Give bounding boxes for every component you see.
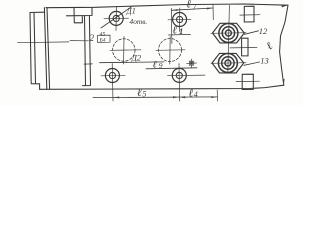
leader Д1	[101, 7, 131, 28]
middle port rectangle	[230, 38, 257, 56]
bottom extension x=217	[216, 90, 218, 101]
leader 13	[244, 62, 260, 65]
right edge bottom arrow	[283, 79, 285, 85]
hole T1 (Д1)	[104, 7, 129, 31]
l7 right corner arrow	[282, 5, 288, 7]
svg-text:2: 2	[90, 33, 95, 43]
hex plug 13	[211, 53, 246, 73]
body top edge	[46, 4, 288, 8]
bottom port rectangle	[236, 74, 260, 89]
small tick on joint	[84, 63, 93, 65]
dim l9 line	[146, 68, 197, 69]
svg-text:45: 45	[100, 31, 106, 38]
svg-text:ℓ: ℓ	[264, 40, 275, 53]
plugs vertical centerline	[228, 5, 230, 73]
svg-text:5: 5	[142, 89, 146, 98]
label E1 underline	[169, 33, 191, 36]
small star symbol	[187, 59, 197, 68]
bottom dimension line	[93, 96, 217, 99]
l7 arrows	[172, 8, 213, 11]
svg-text:9: 9	[159, 61, 163, 70]
dim l7 line	[171, 8, 213, 10]
leader 12	[245, 31, 259, 35]
svg-text:ℓ: ℓ	[137, 87, 142, 99]
svg-text:ℓ: ℓ	[186, 0, 191, 11]
svg-text:4отв.: 4отв.	[130, 17, 148, 26]
hole T2 (Д1)	[168, 8, 191, 32]
svg-text:Д2: Д2	[131, 53, 142, 63]
hole B2 (Д1)	[168, 64, 206, 102]
dim 2 leader line and box	[70, 40, 89, 42]
hole B1 (Д1)	[101, 64, 125, 102]
svg-text:7: 7	[193, 2, 197, 11]
svg-text:ℓ: ℓ	[189, 88, 194, 100]
left port centerline	[18, 41, 70, 44]
Д2 label underline	[100, 61, 165, 64]
svg-text:Д1: Д1	[126, 7, 136, 16]
bottom small step	[83, 85, 90, 87]
cap flange double line	[44, 8, 49, 90]
svg-text:13: 13	[260, 56, 269, 66]
svg-text:1: 1	[179, 26, 183, 36]
l7 extension lines	[171, 5, 213, 44]
body bottom edge	[40, 85, 284, 89]
left end cap outline	[30, 12, 45, 89]
internal vertical joint lines	[85, 16, 91, 86]
dashed circle Д2 left	[110, 37, 141, 65]
svg-text:ℓ: ℓ	[173, 25, 178, 37]
body right edge	[280, 5, 288, 85]
svg-text:4: 4	[194, 90, 198, 99]
hex plug 12	[211, 23, 246, 43]
top notch	[67, 8, 93, 23]
dashed circle Д2 right	[156, 37, 185, 65]
svg-text:ℓ: ℓ	[153, 59, 157, 70]
svg-text:12: 12	[259, 26, 268, 36]
top port rectangle	[240, 6, 260, 22]
bottom dim arrows	[113, 96, 217, 98]
